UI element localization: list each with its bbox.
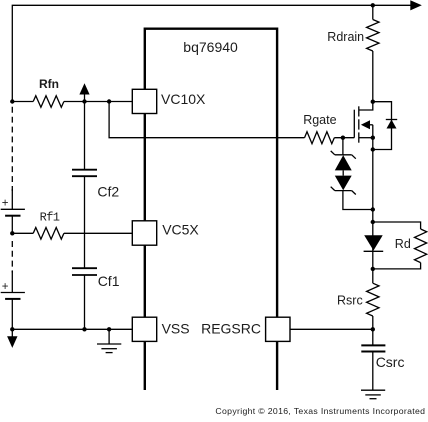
svg-text:bq76940: bq76940 (183, 39, 238, 55)
svg-text:REGSRC: REGSRC (201, 321, 261, 337)
node: mid-column bottom junction (82, 327, 86, 331)
wire: row3 VSS wire (12, 328, 132, 330)
arrowhead right (top rail) (410, 0, 422, 10)
wire: Rdrain to drain node (372, 51, 374, 102)
wire: Rsrc to REGSRC node (372, 316, 374, 345)
wire: mid-column vertical (Cf2/Cf1 column) (84, 102, 86, 170)
wire: Csrc to ground (372, 352, 374, 391)
node: diode/Rd top junction (371, 220, 375, 224)
svg-text:+: + (2, 198, 9, 210)
svg-text:Csrc: Csrc (376, 354, 405, 370)
node: mid-column top junction (82, 99, 86, 103)
resistor Rgate (305, 132, 335, 144)
svg-text:Copyright © 2016, Texas Instru: Copyright © 2016, Texas Instruments Inco… (215, 406, 425, 416)
node: gate node (341, 136, 345, 140)
svg-text:Cf2: Cf2 (97, 184, 119, 200)
wire: to Rsrc (372, 269, 374, 283)
wire: gate drive line (down then right to Rgate) (109, 102, 304, 138)
dashed wire: left rail segment 2 (11, 241, 13, 273)
node: left rail / Rfn junction (10, 99, 14, 103)
wire: Rgate to gate node (334, 137, 354, 139)
svg-text:Rgate: Rgate (303, 113, 336, 127)
svg-text:VSS: VSS (162, 321, 190, 337)
svg-text:Rdrain: Rdrain (327, 30, 364, 44)
svg-text:+: + (2, 281, 9, 293)
node: MOSFET source node (371, 136, 375, 140)
resistor Rd (parallel branch) (373, 222, 427, 269)
resistor Rfn (33, 96, 64, 108)
resistor Rsrc (367, 283, 379, 316)
IC bq76940 outline (top, left, right edges) (145, 29, 277, 390)
capacitor Cf2 (72, 170, 97, 177)
ground symbol (Csrc) (361, 390, 385, 399)
wire: REGSRC pin to node (290, 328, 373, 330)
svg-text:Rd: Rd (395, 237, 411, 251)
pin box VSS (132, 317, 156, 341)
node: ground stub junction (107, 327, 111, 331)
node: diode/Rd bottom junction (371, 267, 375, 271)
node: gate-branch junction on row1 (107, 99, 111, 103)
node: REGSRC / Csrc junction (371, 327, 375, 331)
svg-text:VC10X: VC10X (161, 91, 206, 107)
pin box VC10X (132, 89, 156, 113)
resistor Rf1 (33, 228, 64, 240)
diode D1 (pointing down) (364, 222, 384, 269)
dashed wire: left rail segment 1 (11, 107, 13, 191)
wire: top rail to Rdrain (372, 5, 374, 19)
battery cell 1 (+ top) (1, 189, 25, 233)
capacitor Cf1 (72, 268, 97, 275)
capacitor Csrc (361, 345, 385, 351)
svg-text:Rsrc: Rsrc (337, 294, 363, 308)
svg-text:Rfn: Rfn (39, 77, 59, 91)
down arrow below battery2 (11, 329, 13, 337)
svg-text:VC5X: VC5X (162, 222, 199, 238)
up arrow above mid-column (79, 83, 89, 94)
ground symbol (VSS) (97, 329, 121, 352)
TVS zener pair (gate-source clamp) (331, 138, 373, 210)
node: MOSFET drain node (371, 100, 375, 104)
wire: Rf1 to VC5X box (64, 232, 132, 234)
pin box REGSRC (266, 317, 290, 341)
svg-text:Cf1: Cf1 (98, 273, 120, 289)
node: battery1 / Rf1 junction (10, 231, 14, 235)
body diode of Q1 (373, 102, 397, 150)
node: TVS return junction (371, 207, 375, 211)
svg-text:Rf1: Rf1 (40, 210, 60, 224)
wire: row2 from battery to Rf1 (12, 232, 33, 234)
wire: Rfn to VC10X box (64, 101, 132, 103)
wire: row1 from left dot to Rfn (12, 101, 33, 103)
pin box VC5X (132, 221, 156, 245)
battery cell 2 (+ top) (1, 271, 25, 329)
resistor Rdrain (367, 20, 379, 52)
transistor Q1 (N-MOSFET) (354, 102, 373, 143)
node: body-diode return node (371, 147, 375, 151)
node: top rail / Rdrain junction (371, 3, 375, 7)
wire: source node down the main column (372, 138, 374, 222)
node: battery2 / VSS row junction (10, 327, 14, 331)
wire: top rail from top-left corner to arrow (12, 5, 411, 101)
